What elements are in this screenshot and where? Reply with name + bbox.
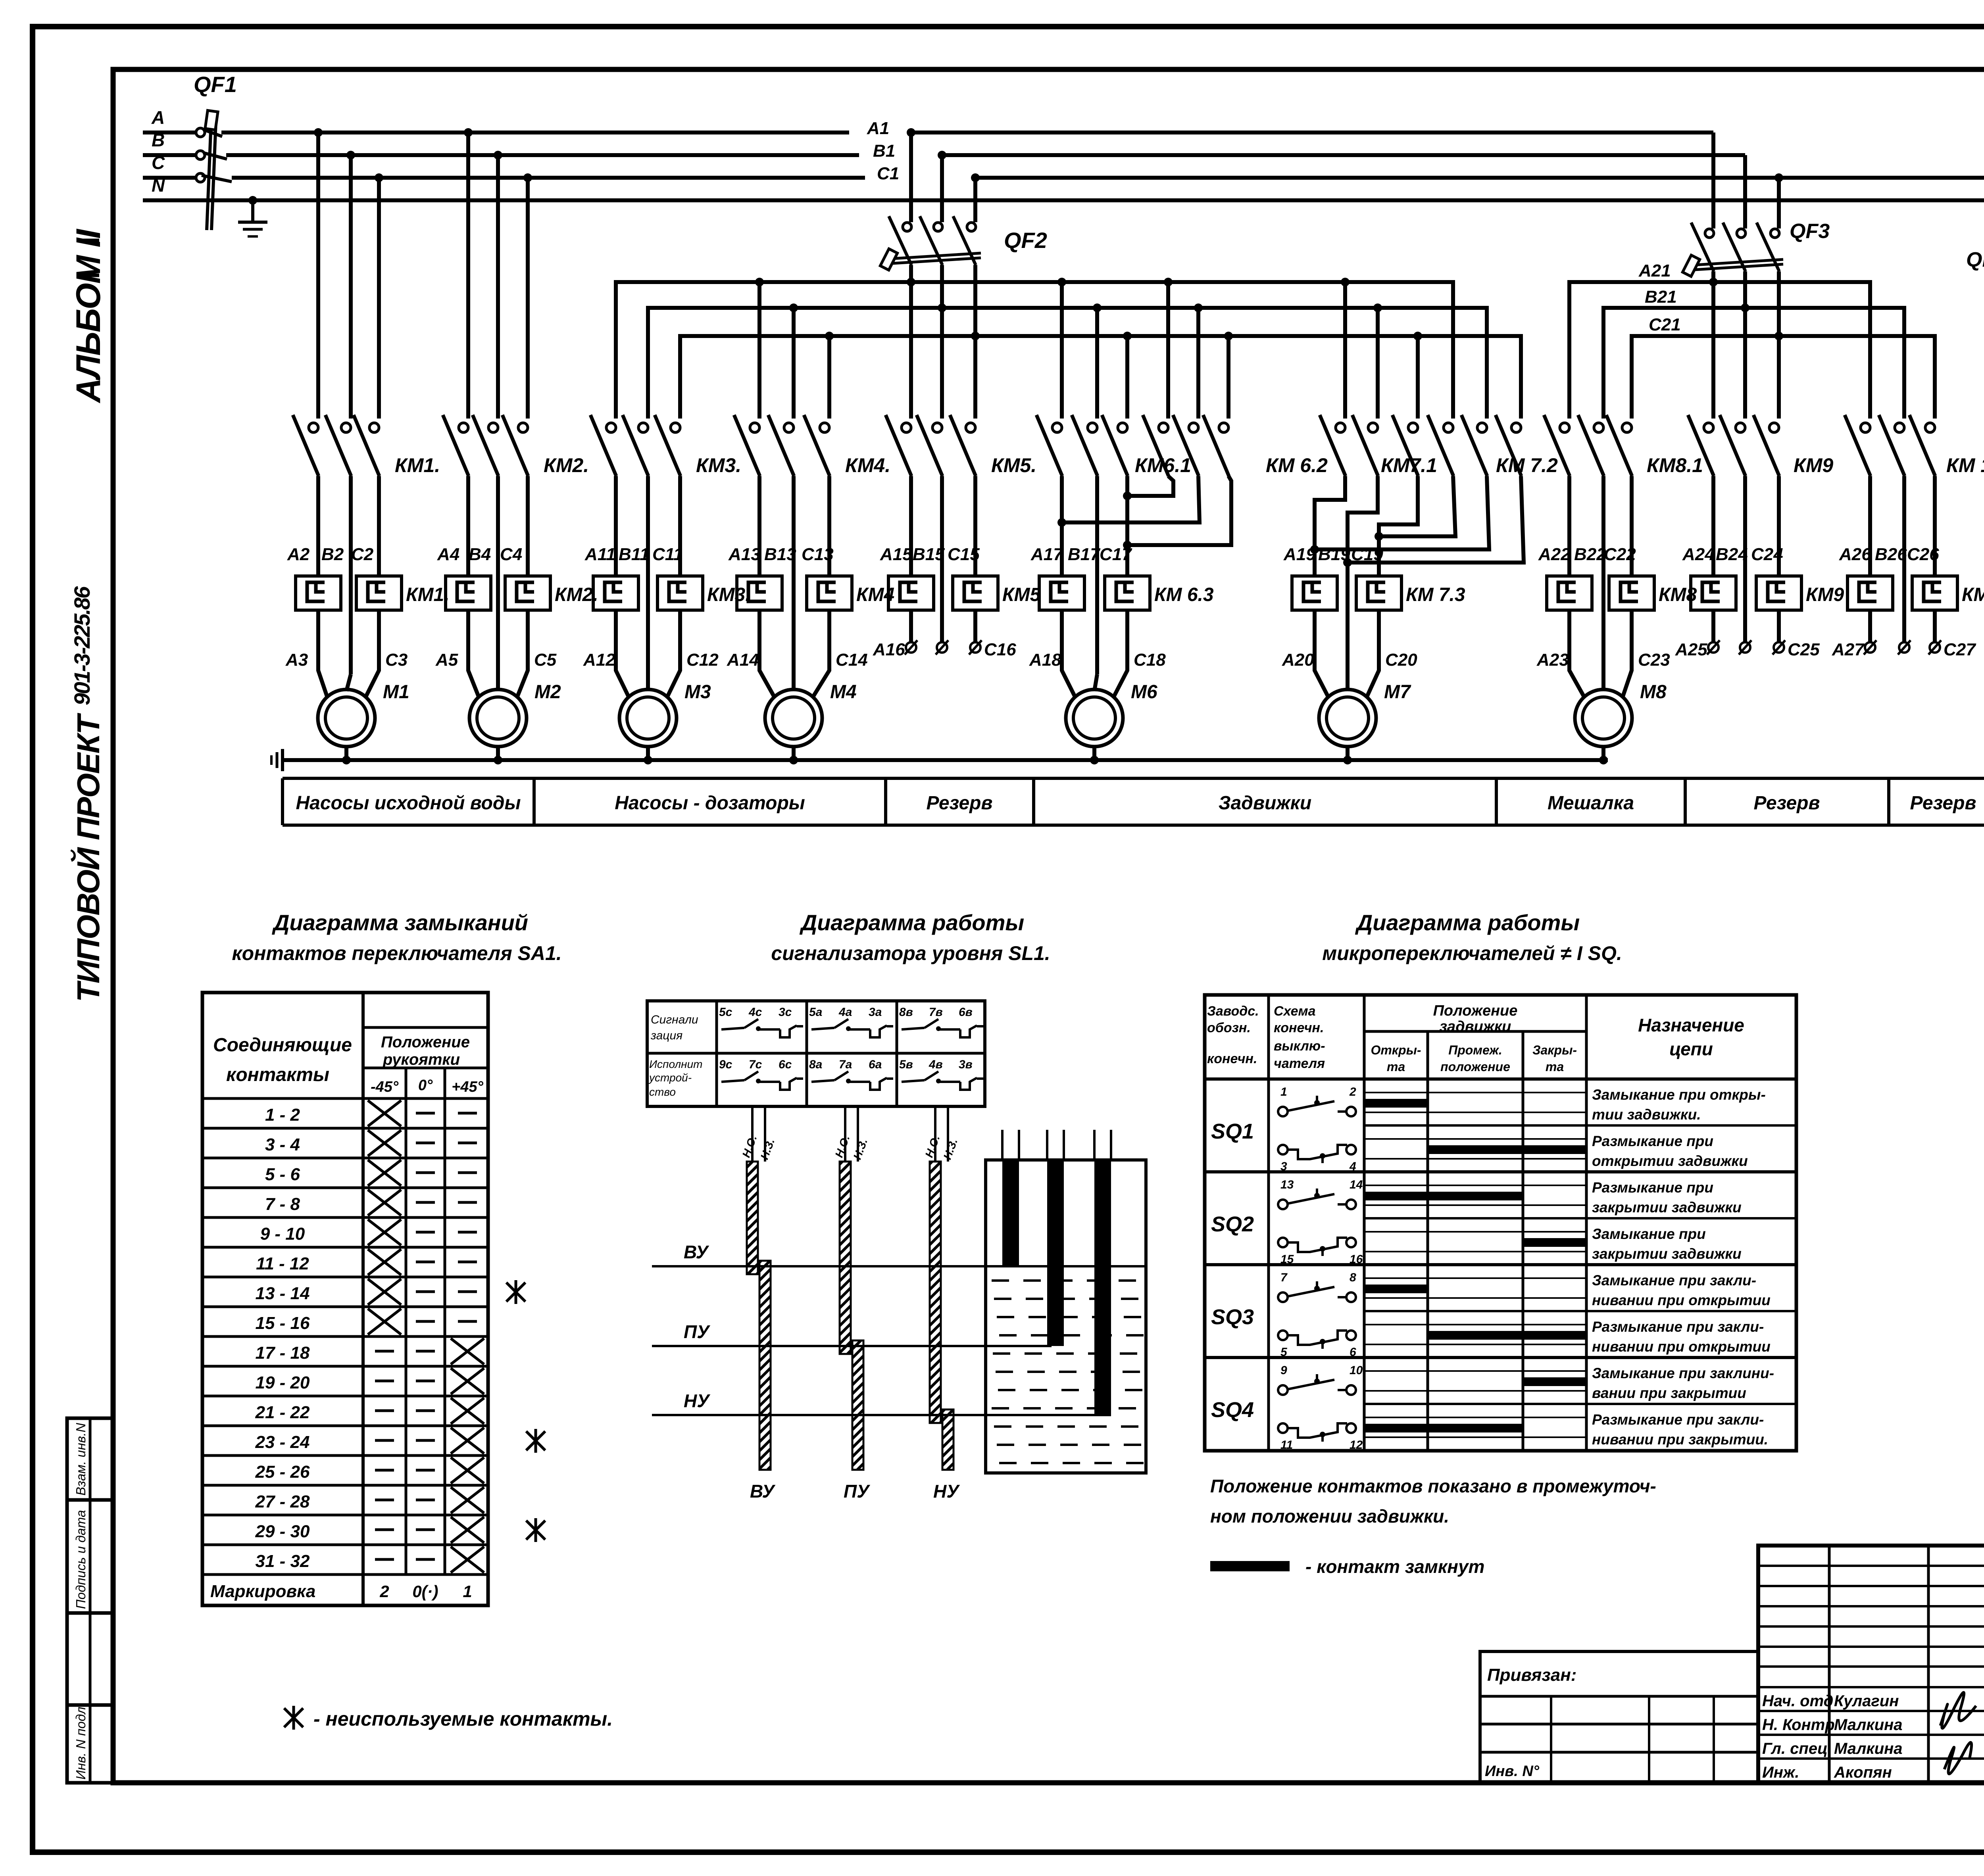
svg-text:конечн.: конечн. — [1274, 1020, 1324, 1035]
wires from thermal relays to motor M1 — [318, 610, 379, 697]
sub-bus B21 (from QF3) — [1603, 308, 1904, 419]
svg-text:ТИПОВОЙ ПРОЕКТ: ТИПОВОЙ ПРОЕКТ — [70, 712, 106, 1002]
svg-text:13 - 14: 13 - 14 — [256, 1284, 310, 1303]
thermal relay KM7.3 element phase C — [1356, 576, 1401, 610]
svg-text:А18: А18 — [1029, 650, 1061, 670]
sub-bus C2 (from QF2) — [680, 336, 1521, 419]
svg-text:А23: А23 — [1536, 650, 1569, 670]
bus stub C with label — [143, 176, 195, 180]
svg-text:Резерв: Резерв — [1910, 793, 1976, 814]
svg-text:Размыкание при: Размыкание при — [1592, 1133, 1713, 1149]
reversing bridge KM7.2-A to KM7 C wire — [1379, 476, 1455, 536]
svg-text:ВУ: ВУ — [684, 1242, 709, 1262]
svg-text:9с: 9с — [719, 1058, 732, 1071]
svg-text:С19: С19 — [1351, 545, 1383, 564]
thermal relay KM10 element phase A — [1848, 576, 1893, 610]
svg-text:Промеж.: Промеж. — [1448, 1043, 1502, 1057]
thermal relay KM3 element phase A — [593, 576, 638, 610]
open terminal KM5 phase B — [936, 640, 948, 655]
svg-text:КМ 6.2: КМ 6.2 — [1266, 454, 1328, 476]
svg-text:КМ3.: КМ3. — [707, 584, 751, 605]
svg-text:Размыкание при закли-: Размыкание при закли- — [1592, 1319, 1764, 1335]
svg-text:Нач. отд: Нач. отд — [1762, 1692, 1833, 1710]
svg-text:Подпись и дата: Подпись и дата — [73, 1510, 88, 1609]
svg-text:ство: ство — [649, 1086, 676, 1098]
SQ closed-contact bar row 1 — [1364, 1099, 1428, 1108]
SA1 row 31 - 32 — [202, 1545, 488, 1573]
SL1 electrode NU — [923, 1106, 961, 1502]
thermal relay KM5 element phase A — [888, 576, 934, 610]
svg-text:чателя: чателя — [1274, 1056, 1325, 1071]
thermal relay KM9 element phase C — [1756, 576, 1801, 610]
svg-text:19 - 20: 19 - 20 — [256, 1373, 310, 1392]
svg-text:та: та — [1546, 1060, 1564, 1074]
svg-text:А12: А12 — [583, 650, 615, 670]
svg-text:закрытии задвижки: закрытии задвижки — [1592, 1199, 1742, 1215]
svg-text:Гл. спец: Гл. спец — [1762, 1740, 1828, 1757]
svg-text:открытии задвижки: открытии задвижки — [1592, 1153, 1748, 1169]
svg-text:С4: С4 — [500, 545, 522, 564]
SQ function text row 7 — [1592, 1365, 1774, 1401]
level line VU — [652, 1265, 1146, 1267]
svg-text:16: 16 — [1350, 1253, 1363, 1266]
svg-text:Инж.: Инж. — [1762, 1764, 1799, 1781]
svg-text:М2: М2 — [534, 682, 561, 703]
SQ1 switch schematic — [1278, 1085, 1356, 1173]
svg-text:А15: А15 — [880, 545, 912, 564]
svg-text:Инв. N подл.: Инв. N подл. — [73, 1703, 88, 1780]
legend closed contact bar — [1210, 1561, 1290, 1571]
svg-text:КМ10: КМ10 — [1962, 584, 1984, 605]
svg-text:НУ: НУ — [684, 1390, 711, 1411]
svg-text:устрой-: устрой- — [648, 1071, 692, 1084]
water dashes in tank — [992, 1281, 1144, 1463]
reversing bridge KM6.2-C to KM6.1-C lower — [1127, 476, 1231, 545]
svg-text:та: та — [1387, 1060, 1405, 1074]
svg-text:С1: С1 — [877, 164, 899, 183]
thermal relay KM2 element phase A — [446, 576, 491, 610]
earth symbol — [238, 222, 267, 236]
svg-text:КМ 7.3: КМ 7.3 — [1406, 584, 1465, 605]
svg-text:С2: С2 — [351, 545, 374, 564]
open terminals of reserve feeder KM9 — [1713, 610, 1779, 642]
thermal relay KM6.3 element phase C — [1105, 576, 1150, 610]
svg-text:0(·): 0(·) — [412, 1582, 438, 1601]
phase wire labels above thermal relays — [287, 545, 1939, 564]
wires from thermal relays to motor M2 — [468, 610, 528, 697]
contactor KM7.1 contact phase B — [1352, 415, 1378, 476]
svg-text:QF7: QF7 — [1966, 248, 1984, 271]
SA1 row 11 - 12 — [202, 1247, 488, 1275]
svg-text:А1: А1 — [867, 119, 889, 138]
svg-text:обозн.: обозн. — [1207, 1020, 1251, 1035]
svg-text:КМ5.: КМ5. — [991, 454, 1036, 476]
svg-text:Исполнит: Исполнит — [649, 1058, 703, 1070]
open terminal KM5 phase C — [969, 640, 982, 655]
svg-text:В1: В1 — [873, 141, 895, 161]
svg-text:5а: 5а — [809, 1006, 822, 1019]
svg-text:4с: 4с — [748, 1006, 762, 1019]
contactor KM5 contact phase B — [917, 415, 942, 476]
svg-text:ПУ: ПУ — [684, 1321, 711, 1342]
svg-text:А14: А14 — [727, 650, 759, 670]
svg-text:КМ5: КМ5 — [1002, 584, 1041, 605]
svg-text:Замыкание при заклини-: Замыкание при заклини- — [1592, 1365, 1774, 1381]
contactor KM7.1 contact phase A — [1320, 415, 1346, 476]
svg-text:5 - 6: 5 - 6 — [265, 1165, 300, 1184]
open terminal KM9 phase C — [1773, 640, 1785, 655]
svg-text:В4: В4 — [469, 545, 491, 564]
svg-text:4а: 4а — [838, 1006, 852, 1019]
open terminal KM5 phase A — [905, 640, 917, 655]
svg-text:Инв. N°: Инв. N° — [1485, 1763, 1540, 1780]
svg-text:М1: М1 — [383, 682, 409, 703]
svg-text:КМ 7.2: КМ 7.2 — [1496, 454, 1558, 476]
svg-text:29 - 30: 29 - 30 — [255, 1522, 310, 1541]
label C1 in bus gap — [865, 175, 972, 181]
svg-text:А19: А19 — [1283, 545, 1316, 564]
svg-text:Н.О.: Н.О. — [833, 1133, 852, 1159]
wire motor M8 to PE bus — [1601, 747, 1605, 760]
svg-text:М7: М7 — [1384, 682, 1411, 703]
wires from thermal relays to motor M3 — [616, 610, 680, 697]
svg-text:23 - 24: 23 - 24 — [255, 1432, 310, 1452]
SA1 row 23 - 24 — [202, 1426, 488, 1454]
SA1 row 3 - 4 — [202, 1128, 488, 1156]
SA1 row Маркировка — [202, 1575, 488, 1601]
thermal relay KM5 element phase C — [953, 576, 998, 610]
svg-text:17 - 18: 17 - 18 — [256, 1343, 310, 1363]
svg-text:КМ4.: КМ4. — [845, 454, 890, 476]
svg-text:13: 13 — [1280, 1178, 1294, 1191]
contactor KM1 contact phase C — [354, 415, 379, 476]
svg-text:КМ1.: КМ1. — [395, 454, 440, 476]
KM6.1 output wires to thermal boxes — [1062, 476, 1127, 674]
svg-text:ПУ: ПУ — [844, 1481, 871, 1502]
svg-text:В: В — [152, 130, 165, 150]
svg-text:7с: 7с — [749, 1058, 762, 1071]
wire motor M1 to PE bus — [344, 747, 348, 760]
reversing bridge KM6.2-A to KM6.1-C — [1127, 476, 1173, 496]
svg-text:1 - 2: 1 - 2 — [265, 1105, 300, 1125]
circuit breaker QF3 — [1682, 132, 1783, 419]
svg-text:С17: С17 — [1100, 545, 1132, 564]
open terminal KM10 phase A — [1864, 640, 1876, 655]
svg-text:1: 1 — [463, 1582, 472, 1601]
svg-text:КМ 10: КМ 10 — [1946, 454, 1984, 476]
svg-text:8в: 8в — [899, 1006, 913, 1019]
svg-text:Диаграмма замыканий: Диаграмма замыканий — [272, 910, 528, 935]
svg-text:В19: В19 — [1318, 545, 1350, 564]
svg-text:2: 2 — [379, 1582, 389, 1601]
contactor KM9 contact phase C — [1753, 415, 1779, 476]
svg-text:выклю-: выклю- — [1274, 1039, 1325, 1054]
wire motor M4 to PE bus — [792, 747, 796, 760]
contactor KM5 contact phase A — [886, 415, 911, 476]
svg-text:Взам. инв.N: Взам. инв.N — [73, 1423, 88, 1496]
svg-text:С12: С12 — [686, 650, 719, 670]
open terminal KM9 phase B — [1739, 640, 1751, 655]
sub-bus A2 (from QF2) — [616, 282, 1453, 419]
level line PU — [652, 1345, 1052, 1347]
svg-text:11: 11 — [1280, 1438, 1293, 1452]
bus stub A with label — [143, 131, 195, 134]
svg-text:АЛЬБОМ II: АЛЬБОМ II — [69, 228, 108, 403]
thermal relay KM1 element phase A — [296, 576, 341, 610]
svg-text:QF3: QF3 — [1790, 220, 1830, 243]
svg-text:А13: А13 — [728, 545, 761, 564]
svg-text:- контакт замкнут: - контакт замкнут — [1305, 1556, 1484, 1577]
svg-text:С15: С15 — [948, 545, 980, 564]
svg-text:Назначение: Назначение — [1638, 1015, 1744, 1035]
svg-text:КМ9: КМ9 — [1806, 584, 1844, 605]
SA1 row 15 - 16 — [202, 1307, 488, 1335]
svg-text:М6: М6 — [1131, 682, 1157, 703]
svg-text:SQ1: SQ1 — [1211, 1119, 1254, 1143]
svg-text:С13: С13 — [802, 545, 834, 564]
svg-text:Задвижки: Задвижки — [1219, 793, 1312, 814]
svg-text:9 - 10: 9 - 10 — [260, 1224, 305, 1244]
svg-text:0°: 0° — [418, 1077, 433, 1094]
svg-text:нивании при закрытии.: нивании при закрытии. — [1592, 1431, 1768, 1448]
svg-text:6с: 6с — [779, 1058, 792, 1071]
drops to KM1 and KM2 from main buses — [314, 128, 532, 419]
svg-text:В26: В26 — [1875, 545, 1907, 564]
svg-text:Резерв: Резерв — [1754, 793, 1820, 814]
svg-text:Мешалка: Мешалка — [1548, 793, 1634, 814]
svg-text:закрытии задвижки: закрытии задвижки — [1592, 1246, 1742, 1262]
svg-text:6: 6 — [1350, 1346, 1356, 1359]
svg-text:3в: 3в — [959, 1058, 973, 1071]
SA1 row 9 - 10 — [202, 1217, 488, 1245]
wire motor M2 to PE bus — [496, 747, 500, 760]
SQ closed-contact bar row 7 — [1523, 1377, 1586, 1386]
svg-text:15: 15 — [1280, 1253, 1294, 1266]
svg-text:9: 9 — [1280, 1364, 1287, 1377]
sub-bus A21 (from QF3) — [1569, 282, 1870, 419]
svg-text:А16: А16 — [873, 640, 905, 659]
SL1 signal cell NU — [899, 1006, 983, 1037]
thermal relay KM10 element phase C — [1912, 576, 1957, 610]
svg-text:ном положении задвижки.: ном положении задвижки. — [1210, 1506, 1449, 1527]
svg-text:Малкина: Малкина — [1834, 1716, 1903, 1734]
motor M7 — [1319, 689, 1376, 747]
svg-text:8: 8 — [1350, 1271, 1356, 1284]
contactor KM5 contact phase C — [950, 415, 976, 476]
svg-text:Н.О.: Н.О. — [923, 1133, 942, 1159]
svg-text:7а: 7а — [839, 1058, 852, 1071]
SA1 row 21 - 22 — [202, 1396, 488, 1424]
thermal relay KM4 element phase A — [737, 576, 782, 610]
svg-text:Маркировка: Маркировка — [210, 1582, 315, 1601]
contactor KM6.2 contact phase B — [1173, 415, 1199, 476]
svg-text:ВУ: ВУ — [750, 1481, 776, 1502]
svg-text:А4: А4 — [437, 545, 459, 564]
wire motor M6 to PE bus — [1092, 747, 1096, 760]
svg-text:Насосы - дозаторы: Насосы - дозаторы — [615, 793, 805, 814]
svg-text:С20: С20 — [1385, 650, 1417, 670]
svg-text:Малкина: Малкина — [1834, 1740, 1903, 1757]
title block — [1758, 1546, 1984, 1783]
svg-text:А3: А3 — [285, 650, 308, 670]
contactor KM1 contact phase A — [293, 415, 319, 476]
SQ function text row 3 — [1592, 1179, 1742, 1215]
svg-text:С14: С14 — [836, 650, 868, 670]
svg-text:Н.З.: Н.З. — [941, 1137, 960, 1161]
svg-text:Замыкание при откры-: Замыкание при откры- — [1592, 1087, 1766, 1103]
svg-text:вании при закрытии: вании при закрытии — [1592, 1385, 1746, 1401]
svg-text:С21: С21 — [1649, 315, 1681, 334]
bus C — [232, 176, 1984, 180]
SQ group separator lines — [1205, 1125, 1796, 1404]
svg-text:Схема: Схема — [1274, 1004, 1316, 1019]
svg-text:С24: С24 — [1751, 545, 1783, 564]
svg-text:А21: А21 — [1638, 261, 1671, 280]
SQ header texts — [1207, 1002, 1744, 1074]
svg-text:М8: М8 — [1640, 682, 1667, 703]
contactor KM7.2 contact phase B — [1461, 415, 1487, 476]
motor M8 — [1575, 689, 1632, 747]
Privyazan box — [1480, 1651, 1758, 1783]
svg-text:5в: 5в — [899, 1058, 913, 1071]
svg-text:SQ2: SQ2 — [1211, 1212, 1254, 1236]
svg-text:Замыкание при: Замыкание при — [1592, 1226, 1706, 1242]
SA1 row 27 - 28 — [202, 1485, 488, 1513]
svg-text:положение: положение — [1440, 1060, 1510, 1074]
svg-text:5: 5 — [1280, 1346, 1288, 1359]
svg-text:С: С — [152, 152, 165, 173]
open terminals of reserve feeder KM10 — [1870, 610, 1935, 642]
svg-text:15 - 16: 15 - 16 — [256, 1313, 310, 1333]
svg-text:конечн.: конечн. — [1207, 1051, 1257, 1066]
SQ function text row 4 — [1592, 1226, 1742, 1262]
svg-text:рукоятки: рукоятки — [383, 1051, 460, 1068]
svg-text:11 - 12: 11 - 12 — [256, 1254, 309, 1273]
svg-text:тии задвижки.: тии задвижки. — [1592, 1106, 1701, 1123]
contactor KM8.1 contact phase A — [1544, 415, 1570, 476]
level line NU — [652, 1414, 1111, 1416]
label A1 in bus gap — [849, 129, 908, 136]
svg-text:Положение: Положение — [1433, 1002, 1518, 1019]
SL1 signal table — [647, 1001, 985, 1106]
SQ thin ruling lines in position columns — [1364, 1093, 1586, 1437]
svg-text:3 - 4: 3 - 4 — [265, 1135, 300, 1154]
contactor KM2 contact phase C — [502, 415, 528, 476]
title block staff rows — [1762, 1692, 1903, 1781]
svg-text:Кулагин: Кулагин — [1834, 1692, 1899, 1710]
contactor KM9 contact phase A — [1688, 415, 1714, 476]
contactor KM8.1 contact phase C — [1606, 415, 1632, 476]
svg-text:В17: В17 — [1068, 545, 1101, 564]
svg-text:3с: 3с — [779, 1006, 792, 1019]
SA1 row 5 - 6 — [202, 1158, 488, 1186]
motor M4 — [765, 689, 822, 747]
svg-text:QF1: QF1 — [194, 72, 237, 97]
thermal relay KM1 element phase C — [356, 576, 402, 610]
asterisk unused contact 29-30 — [526, 1521, 545, 1540]
svg-text:В22: В22 — [1574, 545, 1606, 564]
svg-text:Н.З.: Н.З. — [851, 1137, 870, 1161]
contactor KM6.1 contact phase A — [1036, 415, 1062, 476]
svg-text:7: 7 — [1280, 1271, 1288, 1284]
contactor KM2 contact phase B — [473, 415, 498, 476]
svg-text:6в: 6в — [959, 1006, 973, 1019]
svg-text:КМ6.1: КМ6.1 — [1135, 454, 1191, 476]
svg-text:А17: А17 — [1030, 545, 1064, 564]
svg-text:В21: В21 — [1645, 287, 1677, 307]
SQ closed-contact bar row 4 — [1523, 1238, 1586, 1247]
bus stub B with label — [143, 153, 195, 157]
svg-text:Н.О.: Н.О. — [740, 1133, 759, 1159]
sub-bus B2 (from QF2) — [648, 308, 1487, 419]
svg-text:3: 3 — [1280, 1160, 1287, 1173]
svg-text:12: 12 — [1350, 1438, 1363, 1452]
open terminal KM9 phase A — [1707, 640, 1720, 655]
contactor KM10 contact phase B — [1879, 415, 1905, 476]
svg-text:Положение контактов пока: Положение контактов показано в промежуто… — [1210, 1476, 1656, 1496]
ground connection on bus N — [248, 196, 257, 205]
tank electrode 2 (to PU) — [1047, 1130, 1064, 1346]
SL1 actuator cell NU — [899, 1058, 983, 1090]
contactor KM4 contact phase C — [804, 415, 830, 476]
SA1 table frame — [202, 993, 488, 1605]
svg-text:Резерв: Резерв — [927, 793, 993, 814]
motor M6 — [1066, 689, 1123, 747]
svg-text:А20: А20 — [1282, 650, 1314, 670]
circuit breaker QF2 — [880, 128, 981, 419]
SQ closed-contact bar row 3 — [1364, 1192, 1523, 1200]
svg-text:Диаграмма работы: Диаграмма работы — [1355, 910, 1580, 935]
open terminals of reserve feeder KM5 — [911, 610, 975, 642]
svg-text:А: А — [151, 107, 165, 128]
tank electrode 1 (to VU) — [1002, 1130, 1019, 1266]
SQ closed-contact bar row 5 — [1364, 1285, 1428, 1293]
SA1 row 13 - 14 — [202, 1277, 488, 1305]
PE ground bus — [283, 758, 1608, 762]
svg-text:7в: 7в — [929, 1006, 943, 1019]
contactor KM6.2 contact phase A — [1143, 415, 1169, 476]
contactor KM4 contact phase B — [768, 415, 794, 476]
svg-text:8а: 8а — [809, 1058, 822, 1071]
SQ table frame — [1205, 995, 1796, 1451]
asterisk unused contact 13-14 — [506, 1283, 525, 1302]
SQ function text row 1 — [1592, 1087, 1766, 1123]
contactor KM4 contact phase A — [734, 415, 760, 476]
bus A — [221, 131, 1713, 134]
svg-text:М4: М4 — [830, 682, 857, 703]
svg-text:Положение: Положение — [381, 1033, 470, 1051]
svg-text:КМ8.1: КМ8.1 — [1647, 454, 1703, 476]
svg-text:В24: В24 — [1716, 545, 1748, 564]
svg-text:2: 2 — [1349, 1085, 1356, 1098]
svg-text:В13: В13 — [764, 545, 796, 564]
destination label boxes row — [283, 778, 1984, 825]
svg-text:В2: В2 — [321, 545, 344, 564]
contactor KM7.2 contact phase C — [1496, 415, 1521, 476]
svg-text:КМ7.1: КМ7.1 — [1381, 454, 1437, 476]
svg-text:НУ: НУ — [933, 1481, 960, 1502]
thermal relay KM4 element phase C — [807, 576, 852, 610]
svg-text:С16: С16 — [984, 640, 1016, 659]
svg-text:С27: С27 — [1944, 640, 1976, 659]
signature squiggles — [1940, 1692, 1976, 1774]
contactor KM6.1 contact phase B — [1072, 415, 1098, 476]
svg-text:М3: М3 — [684, 682, 711, 703]
svg-text:контактов переключателя SА1.: контактов переключателя SА1. — [232, 942, 561, 964]
svg-text:SQ4: SQ4 — [1211, 1398, 1254, 1422]
reversing bridge KM6.2-B to KM6.1-A — [1062, 476, 1200, 522]
svg-text:QF2: QF2 — [1004, 228, 1047, 253]
